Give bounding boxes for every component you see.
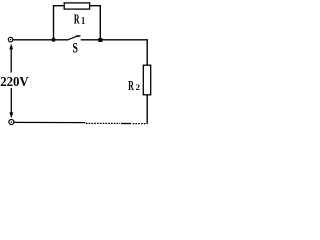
svg-text:220V: 220V <box>0 75 29 90</box>
label R1 <box>74 13 85 28</box>
wire right branch of R1 parallel loop <box>90 6 100 41</box>
source terminal bottom (circle) <box>9 120 14 125</box>
wire main horizontal from source top terminal to switch <box>13 39 67 41</box>
junction node left (dot) <box>52 38 56 42</box>
svg-text:S: S <box>73 40 78 56</box>
wire from R2 down to bottom-right corner <box>146 95 148 124</box>
wire from switch to top-right corner and down to R2 <box>81 40 147 66</box>
voltage arrow up <box>9 44 13 73</box>
source terminal top (circle) <box>8 37 13 42</box>
switch S blade <box>67 36 81 40</box>
svg-text:R: R <box>74 13 80 28</box>
junction node right (dot) <box>98 38 102 42</box>
svg-text:R: R <box>128 79 134 94</box>
wire bottom dashed to bottom-right corner <box>86 122 148 124</box>
voltage arrow down <box>9 88 13 118</box>
wire bottom solid from source bottom terminal <box>14 121 86 123</box>
wire left branch of R1 parallel loop <box>54 6 64 41</box>
svg-text:1: 1 <box>81 16 85 27</box>
resistor R2 <box>143 65 150 95</box>
label R2 <box>128 79 140 94</box>
svg-text:2: 2 <box>136 83 140 92</box>
resistor R1 <box>64 3 89 9</box>
